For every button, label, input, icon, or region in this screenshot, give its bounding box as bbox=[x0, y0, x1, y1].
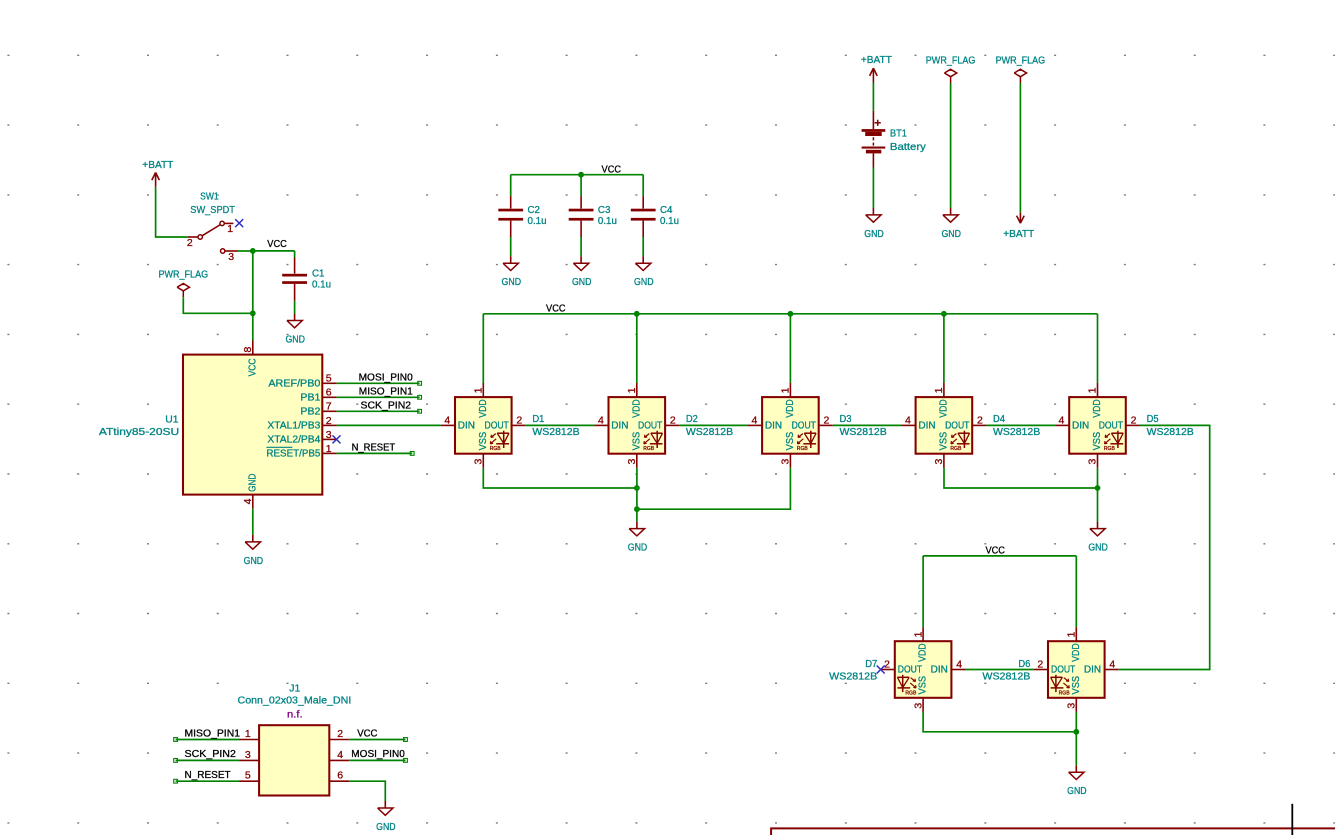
svg-text:VSS: VSS bbox=[1091, 432, 1103, 451]
svg-text:SCK_PIN2: SCK_PIN2 bbox=[185, 748, 237, 760]
svg-text:VDD: VDD bbox=[784, 399, 796, 418]
svg-text:VDD: VDD bbox=[477, 399, 489, 418]
svg-text:DIN: DIN bbox=[1072, 421, 1089, 432]
svg-text:0.1u: 0.1u bbox=[528, 215, 547, 227]
svg-text:DOUT: DOUT bbox=[1099, 421, 1123, 432]
svg-text:GND: GND bbox=[502, 276, 522, 288]
svg-text:SW1: SW1 bbox=[200, 191, 219, 203]
svg-text:4: 4 bbox=[1059, 414, 1065, 426]
svg-text:VSS: VSS bbox=[917, 676, 929, 695]
svg-text:VCC: VCC bbox=[985, 544, 1005, 556]
svg-text:5: 5 bbox=[326, 373, 332, 385]
svg-text:RGB: RGB bbox=[643, 446, 654, 452]
svg-text:1: 1 bbox=[933, 387, 945, 393]
svg-text:VCC: VCC bbox=[357, 727, 378, 739]
svg-text:VDD: VDD bbox=[630, 399, 642, 418]
svg-text:VCC: VCC bbox=[247, 358, 259, 376]
svg-text:GND: GND bbox=[285, 334, 305, 346]
svg-text:VCC: VCC bbox=[267, 238, 287, 250]
svg-text:DIN: DIN bbox=[765, 421, 782, 432]
svg-text:2: 2 bbox=[516, 414, 522, 426]
svg-text:DIN: DIN bbox=[1084, 665, 1101, 676]
svg-text:VDD: VDD bbox=[938, 399, 950, 418]
svg-text:RGB: RGB bbox=[905, 690, 916, 696]
svg-text:D5: D5 bbox=[1147, 413, 1159, 425]
svg-text:C2: C2 bbox=[528, 204, 541, 216]
svg-text:2: 2 bbox=[884, 659, 890, 671]
svg-text:1: 1 bbox=[245, 728, 251, 740]
svg-text:ATtiny85-20SU: ATtiny85-20SU bbox=[99, 426, 179, 438]
svg-text:MISO_PIN1: MISO_PIN1 bbox=[185, 727, 241, 739]
svg-text:RGB: RGB bbox=[797, 446, 808, 452]
svg-text:2: 2 bbox=[824, 414, 830, 426]
svg-text:PWR_FLAG: PWR_FLAG bbox=[926, 55, 976, 67]
svg-text:6: 6 bbox=[337, 770, 343, 782]
svg-text:1: 1 bbox=[780, 387, 792, 393]
svg-text:VSS: VSS bbox=[477, 432, 489, 451]
svg-text:4: 4 bbox=[242, 498, 254, 504]
svg-text:Conn_02x03_Male_DNI: Conn_02x03_Male_DNI bbox=[238, 694, 352, 706]
svg-text:D1: D1 bbox=[532, 413, 544, 425]
svg-text:D3: D3 bbox=[840, 413, 852, 425]
svg-text:3: 3 bbox=[1087, 459, 1099, 465]
svg-text:GND: GND bbox=[244, 555, 264, 567]
svg-text:GND: GND bbox=[628, 542, 648, 554]
svg-text:1: 1 bbox=[1087, 387, 1099, 393]
svg-text:3: 3 bbox=[1066, 703, 1078, 709]
svg-text:RGB: RGB bbox=[490, 446, 501, 452]
svg-text:GND: GND bbox=[1088, 542, 1108, 554]
svg-text:0.1u: 0.1u bbox=[312, 279, 331, 291]
svg-text:VCC: VCC bbox=[602, 163, 622, 175]
svg-text:1: 1 bbox=[326, 443, 332, 455]
svg-text:WS2812B: WS2812B bbox=[993, 426, 1040, 438]
svg-text:GND: GND bbox=[941, 228, 961, 240]
svg-text:GND: GND bbox=[572, 276, 592, 288]
svg-text:WS2812B: WS2812B bbox=[532, 426, 579, 438]
svg-text:3: 3 bbox=[780, 459, 792, 465]
svg-text:1: 1 bbox=[1066, 632, 1078, 638]
svg-text:DOUT: DOUT bbox=[945, 421, 969, 432]
svg-text:n.f.: n.f. bbox=[287, 709, 303, 721]
svg-text:U1: U1 bbox=[165, 414, 178, 426]
svg-text:RGB: RGB bbox=[1104, 446, 1115, 452]
svg-text:N_RESET: N_RESET bbox=[352, 441, 396, 453]
svg-text:3: 3 bbox=[245, 749, 251, 761]
svg-text:J1: J1 bbox=[289, 683, 300, 695]
svg-text:+BATT: +BATT bbox=[142, 159, 174, 171]
svg-text:1: 1 bbox=[473, 387, 485, 393]
svg-text:GND: GND bbox=[376, 821, 396, 833]
svg-text:4: 4 bbox=[444, 414, 450, 426]
svg-text:3: 3 bbox=[228, 251, 234, 263]
svg-text:D6: D6 bbox=[1018, 658, 1030, 670]
svg-text:0.1u: 0.1u bbox=[660, 215, 679, 227]
svg-text:1: 1 bbox=[227, 223, 233, 235]
svg-text:DOUT: DOUT bbox=[638, 421, 662, 432]
svg-text:VSS: VSS bbox=[784, 432, 796, 451]
svg-text:3: 3 bbox=[473, 459, 485, 465]
svg-text:5: 5 bbox=[245, 770, 251, 782]
svg-text:WS2812B: WS2812B bbox=[1147, 426, 1194, 438]
svg-text:MOSI_PIN0: MOSI_PIN0 bbox=[359, 371, 413, 383]
svg-text:1: 1 bbox=[912, 632, 924, 638]
svg-text:2: 2 bbox=[1037, 659, 1043, 671]
svg-text:SCK_PIN2: SCK_PIN2 bbox=[361, 399, 412, 411]
svg-text:PB1: PB1 bbox=[300, 393, 320, 404]
svg-text:D7: D7 bbox=[865, 658, 877, 670]
svg-text:VSS: VSS bbox=[1070, 676, 1082, 695]
svg-text:8: 8 bbox=[242, 347, 254, 353]
svg-text:DIN: DIN bbox=[458, 421, 475, 432]
svg-text:4: 4 bbox=[598, 414, 604, 426]
svg-text:PWR_FLAG: PWR_FLAG bbox=[996, 55, 1046, 67]
svg-text:3: 3 bbox=[912, 703, 924, 709]
svg-text:C4: C4 bbox=[660, 204, 673, 216]
svg-text:2: 2 bbox=[670, 414, 676, 426]
svg-text:N_RESET: N_RESET bbox=[185, 769, 232, 781]
svg-text:0.1u: 0.1u bbox=[598, 215, 617, 227]
svg-text:BT1: BT1 bbox=[890, 128, 907, 140]
svg-text:DIN: DIN bbox=[931, 665, 948, 676]
svg-text:SW_SPDT: SW_SPDT bbox=[190, 204, 235, 216]
svg-text:WS2812B: WS2812B bbox=[829, 671, 877, 683]
svg-text:C1: C1 bbox=[312, 267, 325, 279]
svg-text:WS2812B: WS2812B bbox=[840, 426, 887, 438]
svg-text:2: 2 bbox=[977, 414, 983, 426]
svg-text:1: 1 bbox=[626, 387, 638, 393]
svg-text:VDD: VDD bbox=[1070, 643, 1082, 662]
svg-text:4: 4 bbox=[956, 659, 962, 671]
svg-text:MISO_PIN1: MISO_PIN1 bbox=[359, 385, 413, 397]
svg-text:VCC: VCC bbox=[546, 303, 566, 315]
svg-text:DIN: DIN bbox=[918, 421, 935, 432]
svg-text:3: 3 bbox=[626, 459, 638, 465]
svg-text:DIN: DIN bbox=[611, 421, 628, 432]
svg-text:Battery: Battery bbox=[890, 141, 927, 153]
svg-text:GND: GND bbox=[247, 473, 259, 491]
svg-text:DOUT: DOUT bbox=[898, 665, 922, 676]
svg-text:4: 4 bbox=[905, 414, 911, 426]
svg-text:VSS: VSS bbox=[938, 432, 950, 451]
svg-text:WS2812B: WS2812B bbox=[686, 426, 733, 438]
svg-text:2: 2 bbox=[337, 728, 343, 740]
svg-text:D2: D2 bbox=[686, 413, 698, 425]
svg-text:DOUT: DOUT bbox=[485, 421, 509, 432]
svg-text:WS2812B: WS2812B bbox=[982, 671, 1030, 683]
svg-text:3: 3 bbox=[326, 429, 332, 441]
svg-text:XTAL1/PB3: XTAL1/PB3 bbox=[267, 421, 320, 432]
svg-text:VDD: VDD bbox=[917, 643, 929, 662]
svg-text:GND: GND bbox=[864, 228, 884, 240]
svg-text:GND: GND bbox=[634, 276, 654, 288]
svg-text:DOUT: DOUT bbox=[792, 421, 816, 432]
svg-text:2: 2 bbox=[1131, 414, 1137, 426]
svg-text:2: 2 bbox=[326, 415, 332, 427]
svg-text:2: 2 bbox=[187, 237, 193, 249]
svg-text:6: 6 bbox=[326, 387, 332, 399]
svg-text:+BATT: +BATT bbox=[861, 54, 893, 66]
svg-text:VDD: VDD bbox=[1091, 399, 1103, 418]
svg-text:GND: GND bbox=[1067, 785, 1087, 797]
svg-text:XTAL2/PB4: XTAL2/PB4 bbox=[267, 435, 320, 446]
svg-text:C3: C3 bbox=[598, 204, 611, 216]
svg-text:4: 4 bbox=[751, 414, 757, 426]
svg-text:7: 7 bbox=[326, 401, 332, 413]
svg-text:RGB: RGB bbox=[1059, 690, 1070, 696]
svg-text:D4: D4 bbox=[993, 413, 1005, 425]
svg-text:4: 4 bbox=[1109, 659, 1115, 671]
svg-text:RGB: RGB bbox=[950, 446, 961, 452]
svg-text:+BATT: +BATT bbox=[1003, 228, 1035, 240]
svg-text:RESET/PB5: RESET/PB5 bbox=[266, 449, 320, 460]
svg-text:MOSI_PIN0: MOSI_PIN0 bbox=[351, 748, 405, 760]
svg-text:VSS: VSS bbox=[630, 432, 642, 451]
svg-text:AREF/PB0: AREF/PB0 bbox=[268, 379, 320, 390]
svg-text:4: 4 bbox=[337, 749, 343, 761]
svg-text:3: 3 bbox=[933, 459, 945, 465]
svg-text:DOUT: DOUT bbox=[1051, 665, 1075, 676]
svg-text:PB2: PB2 bbox=[300, 407, 320, 418]
svg-text:PWR_FLAG: PWR_FLAG bbox=[159, 269, 209, 281]
